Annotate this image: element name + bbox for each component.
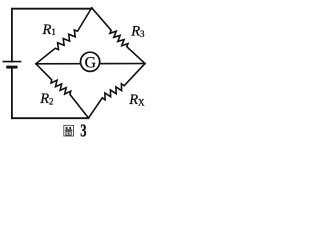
wire: top wire from battery branch to top node: [12, 8, 92, 10]
caption glyph 圖 (drawn): [64, 125, 74, 136]
svg-text:3: 3: [80, 121, 87, 141]
resistor RX (bottom-right arm): [89, 64, 146, 119]
wire: left wire lower segment (battery bottom lead): [11, 67, 13, 118]
wire: galvanometer bridge wire (left node to right node): [36, 63, 145, 65]
galvanometer U1 circle: [81, 52, 100, 71]
resistor R1 (top-left arm): [36, 8, 92, 64]
resistor R3 (top-right arm): [92, 8, 145, 64]
wire: bottom wire to bottom node: [12, 117, 89, 119]
battery B1 negative plate (short thick): [8, 66, 16, 69]
wire: left wire upper segment (battery top lead): [11, 9, 13, 62]
battery B1 positive plate (long): [3, 61, 20, 63]
resistor R2 (bottom-left arm): [36, 64, 89, 118]
svg-text:G: G: [85, 55, 96, 72]
